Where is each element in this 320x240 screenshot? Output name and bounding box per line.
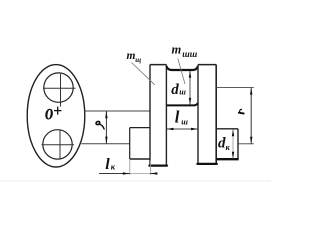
main journal circle (front view) bbox=[42, 130, 75, 160]
dimension r bbox=[216, 88, 253, 144]
dimension d_ш bbox=[171, 71, 191, 105]
svg-text:шш: шш bbox=[182, 49, 197, 59]
svg-text:l: l bbox=[105, 156, 110, 173]
leader for m_щ bbox=[132, 63, 155, 85]
label m_щ bbox=[127, 50, 142, 64]
web (right, side view) bbox=[197, 65, 216, 164]
crankpin circle (front view) bbox=[43, 73, 76, 107]
svg-text:щ: щ bbox=[135, 56, 141, 64]
web (left, side view) bbox=[149, 65, 167, 166]
svg-text:l: l bbox=[175, 108, 180, 127]
wire: main axis line from ellipse to left journal bbox=[81, 143, 129, 145]
label m_шш bbox=[172, 43, 198, 60]
node O (web centre of mass mark) bbox=[45, 100, 62, 125]
svg-text:o: o bbox=[45, 100, 53, 125]
svg-text:к: к bbox=[111, 162, 116, 172]
dimension rho bbox=[96, 111, 108, 144]
dimension d_к bbox=[218, 129, 234, 159]
crankpin (side view) top edge bbox=[167, 66, 198, 70]
wire: CG level line from ellipse to left web bbox=[85, 110, 150, 112]
svg-text:ш: ш bbox=[179, 87, 186, 96]
main journal (right, side view) bbox=[216, 129, 238, 159]
dimension l_ш bbox=[167, 108, 199, 131]
svg-text:к: к bbox=[226, 142, 231, 152]
svg-text:m: m bbox=[172, 43, 182, 57]
svg-text:d: d bbox=[171, 82, 179, 98]
crankpin (side view) bottom edge bbox=[167, 103, 198, 106]
svg-text:m: m bbox=[127, 50, 136, 62]
svg-text:ш: ш bbox=[181, 117, 188, 126]
web front-view ellipse bbox=[27, 65, 85, 167]
main journal (left, side view) bbox=[130, 128, 150, 159]
scan artifact: faint streak bbox=[0, 180, 271, 182]
dimension l_к bbox=[99, 156, 157, 175]
leader for m_шш bbox=[178, 59, 185, 85]
